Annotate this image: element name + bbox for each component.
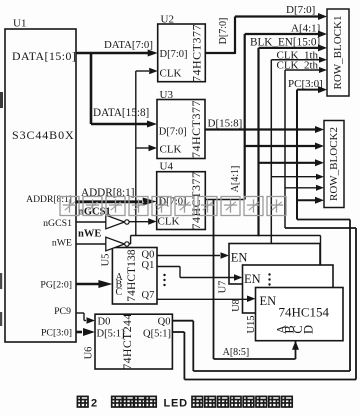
wire A[4:1] branch to ROW_BLOCK2 — [245, 143, 324, 150]
svg-text:74HC154: 74HC154 — [279, 305, 330, 320]
svg-text:74HCT377: 74HCT377 — [189, 172, 203, 230]
IC U3 74HCT377 data latch high byte — [157, 89, 205, 159]
wire CLK_1th branch to ROW_BLOCK2 — [271, 174, 324, 180]
IC U6 74HCT244 buffer — [83, 313, 172, 369]
wire CLK_2th branch to ROW_BLOCK2 — [285, 185, 324, 191]
module ROW_BLOCK2 — [324, 121, 344, 208]
svg-text:PC[3:0]: PC[3:0] — [288, 78, 323, 90]
svg-text:nWE: nWE — [52, 238, 72, 249]
svg-text:ROW_BLOCK1: ROW_BLOCK1 — [332, 16, 344, 90]
inverter gate on nGCS1 — [106, 215, 129, 229]
svg-text:2: 2 — [91, 397, 97, 409]
wire U6 Q0 output loop to PC[3:0] net via right margin — [172, 220, 350, 372]
svg-text:D0: D0 — [98, 317, 111, 328]
module ROW_BLOCK1 — [327, 9, 349, 96]
svg-text:U4: U4 — [160, 161, 174, 173]
wire ADDR[8:1] bus from U1 to U4 D input — [76, 187, 157, 206]
svg-text:74HCT377: 74HCT377 — [189, 24, 203, 82]
wire A[4:1] vertical and to ROW_BLOCK1 — [230, 23, 327, 200]
wire inverted nWE strobe: up and long horizontal to U8 top — [129, 236, 320, 266]
svg-text:CLK: CLK — [160, 144, 182, 156]
svg-text:EN: EN — [260, 294, 277, 308]
wire U5 Q7 to U15 EN — [157, 295, 256, 302]
svg-text:U7: U7 — [217, 281, 228, 294]
svg-text:DATA[15:0]: DATA[15:0] — [12, 49, 76, 63]
svg-text:C: C — [116, 287, 123, 298]
wire CLK_1th vertical down to U7 and to ROW_BLOCK1 — [271, 49, 327, 243]
svg-text:LED: LED — [164, 397, 188, 409]
svg-text:ROW_BLOCK2: ROW_BLOCK2 — [328, 127, 340, 201]
svg-text:nWE: nWE — [78, 229, 101, 240]
wire PC[3:0] bus from U1 to U6 D[5:1] — [76, 328, 95, 336]
svg-text:74HCT244: 74HCT244 — [120, 313, 134, 369]
svg-text:DATA[15:8]: DATA[15:8] — [93, 107, 149, 119]
wire CLK feed vertical to U2 CLK and U3 CLK — [136, 68, 158, 236]
svg-text:ADDR[8:1]: ADDR[8:1] — [26, 194, 72, 205]
svg-text:DATA[7:0]: DATA[7:0] — [104, 39, 153, 51]
svg-text:Q0: Q0 — [158, 317, 171, 328]
scan artifact marks on left edge — [0, 92, 3, 326]
wire D[15:8] from U3 output to ROW_BLOCK2 — [205, 117, 324, 133]
svg-text:74HCT377: 74HCT377 — [189, 100, 203, 158]
wire PC9 from U1 to U6 D0 — [76, 313, 95, 324]
svg-text:nGCS1: nGCS1 — [43, 218, 72, 229]
caption: figure 2 main-board and LED screen interface schematic — [77, 396, 292, 409]
IC U15 74HC154 block-enable decoder (front card) — [246, 288, 343, 341]
wire nWE from U1 to inverter — [76, 229, 106, 245]
wire nGCS1 from U1 through inverter to U4 CLK — [76, 207, 111, 223]
wire PC[3:0] vertical and to ROW_BLOCK1 — [288, 78, 327, 220]
IC U2 74HCT377 data latch low byte — [158, 14, 206, 83]
ellipsis dots between U5 outputs Q1 and Q7 — [163, 274, 165, 286]
svg-text:D[7:0]: D[7:0] — [160, 49, 188, 60]
svg-text:CLK: CLK — [158, 216, 180, 228]
svg-text:S3C44B0X: S3C44B0X — [12, 128, 75, 142]
wire U5 Q0 to U7 EN — [157, 252, 229, 259]
svg-text:Q[5:1]: Q[5:1] — [143, 329, 171, 340]
svg-text:A[4:1]: A[4:1] — [291, 23, 320, 35]
svg-text:D[15:8]: D[15:8] — [208, 117, 243, 129]
svg-text:EN: EN — [244, 272, 261, 286]
ellipsis dots beside U8 EN — [268, 273, 270, 285]
wire DATA[15:8] bus branch down to U3 D input — [91, 52, 157, 128]
svg-text:BLK_EN[15:0]: BLK_EN[15:0] — [250, 36, 320, 48]
wire U4 output to A vertical with A[8:5] branch down to U15 — [205, 200, 299, 360]
svg-text:D[7:0]: D[7:0] — [218, 18, 229, 45]
IC U8 74HC154 block-enable decoder (middle card) — [231, 265, 333, 313]
svg-text:74HCT138: 74HCT138 — [126, 249, 138, 302]
svg-text:PC[3:0]: PC[3:0] — [41, 328, 72, 339]
svg-text:Q1: Q1 — [142, 260, 155, 271]
svg-text:PC9: PC9 — [54, 306, 71, 317]
wire inverted nGCS1 to U4 CLK — [129, 218, 156, 225]
wire BLK_EN branch to ROW_BLOCK2 — [259, 159, 325, 166]
wire BLK_EN[15:0] vertical and to ROW_BLOCK1 — [250, 36, 327, 236]
svg-text:D[7:0]: D[7:0] — [159, 127, 187, 138]
svg-text:Q0: Q0 — [142, 250, 155, 261]
wire PG[2:0] bus from U1 to U5 select inputs — [76, 280, 112, 288]
svg-text:U8: U8 — [231, 299, 242, 312]
svg-text:PG[2:0]: PG[2:0] — [40, 280, 72, 291]
wire PC[3:0] branch to ROW_BLOCK2 — [297, 197, 324, 204]
wire U2 output D[7:0] up to ROW_BLOCK1 — [205, 4, 327, 54]
IC U5 74HCT138 decoder — [100, 248, 157, 305]
svg-text:U3: U3 — [160, 89, 174, 101]
IC U4 74HCT377 address latch — [157, 161, 206, 230]
svg-text:D: D — [301, 325, 315, 334]
watermark text row (company name) — [60, 197, 286, 216]
svg-text:U15: U15 — [246, 315, 257, 333]
svg-text:A[8:5]: A[8:5] — [223, 347, 250, 358]
IC U1 S3C44B0X microcontroller — [5, 18, 76, 343]
svg-text:D[7:0]: D[7:0] — [286, 4, 315, 16]
svg-text:EN: EN — [231, 251, 248, 265]
wire U5 Q1 to U8 EN — [157, 267, 243, 281]
svg-text:U6: U6 — [83, 347, 94, 360]
svg-text:U1: U1 — [13, 18, 26, 30]
svg-text:Q7: Q7 — [142, 290, 155, 301]
svg-text:U2: U2 — [161, 14, 174, 26]
wire U6 Q[5:1] output loop to CLK_2th net via right margin — [172, 228, 356, 380]
svg-text:CLK_2th: CLK_2th — [277, 60, 319, 72]
wire DATA[15:0] bus from U1 to U2 D input — [76, 39, 158, 57]
IC U7 74HC154 block-enable decoder (rear card) — [217, 244, 320, 294]
svg-text:A[4:1]: A[4:1] — [230, 166, 241, 193]
svg-text:U5: U5 — [100, 254, 111, 267]
wire CLK_2th vertical and to ROW_BLOCK1 — [277, 60, 328, 228]
inverter gate on nWE — [106, 237, 129, 251]
svg-text:CLK: CLK — [160, 68, 182, 80]
